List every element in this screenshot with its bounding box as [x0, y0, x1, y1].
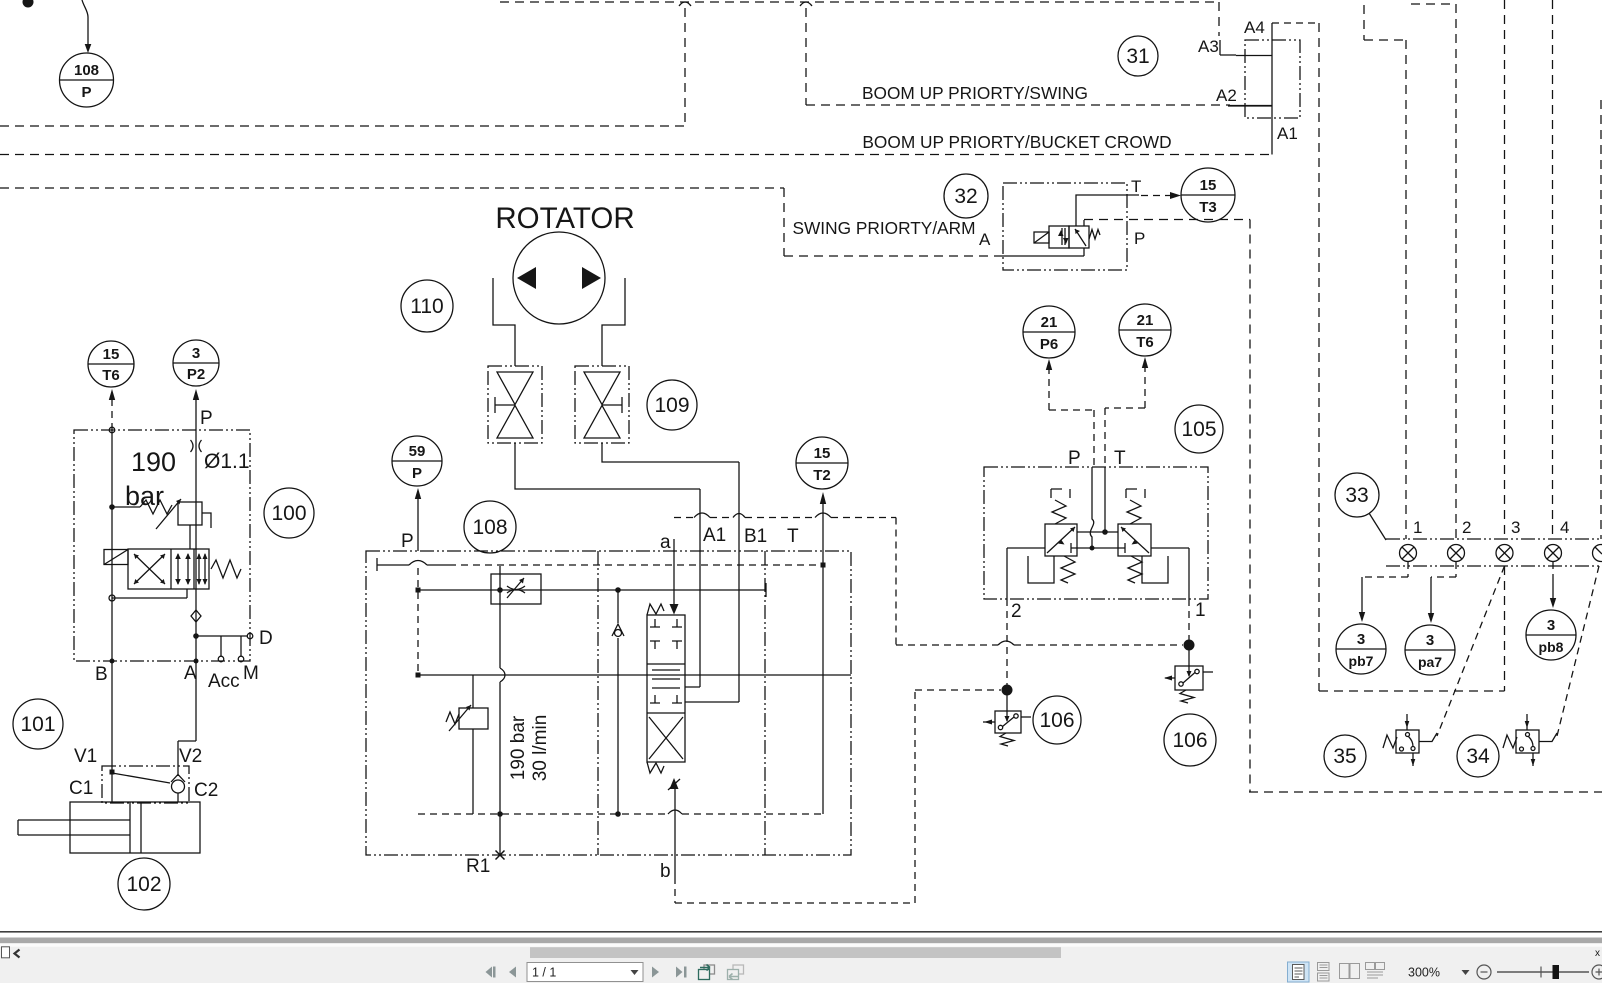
- pilot valve 34: [1503, 714, 1557, 766]
- test point 3: [1496, 545, 1513, 562]
- node: port B dot: [110, 659, 115, 664]
- wire: B to cylinder: [111, 661, 113, 802]
- UI: separator line: [0, 931, 1602, 933]
- UI: light strip: [0, 943, 1602, 946]
- svg-text:T6: T6: [1136, 334, 1154, 351]
- block 108 chain divider x598: [597, 551, 599, 855]
- gauge circle 3/P2: [173, 340, 219, 386]
- gauge circle 108/P: [60, 53, 114, 107]
- wire: dashed riser to 21/P6: [1048, 370, 1050, 410]
- wire: motor right leg: [602, 278, 625, 366]
- gauge circle 21/T6: [1119, 304, 1171, 356]
- sub-section dashed boundary top with crossing bumps: [674, 517, 896, 519]
- svg-text:T6: T6: [102, 367, 120, 384]
- svg-text:V2: V2: [179, 746, 202, 767]
- node: junction dot x196 y636: [193, 633, 199, 639]
- node: open circle x112 y598: [109, 595, 115, 601]
- directional valve V100 spring: [211, 560, 241, 578]
- wire: Acc branch: [220, 636, 222, 656]
- UI: zoom slider: [1497, 971, 1589, 973]
- svg-text:1 / 1: 1 / 1: [532, 966, 556, 980]
- svg-text:190: 190: [131, 447, 176, 477]
- UI: scrollbar thumb: [530, 947, 1061, 958]
- drain point R1 X mark: [496, 851, 505, 860]
- svg-text:106: 106: [1172, 729, 1207, 752]
- UI: zoom out button: [1477, 965, 1491, 979]
- svg-text:A1: A1: [1277, 124, 1298, 143]
- port A3 connection: [1218, 2, 1220, 36]
- svg-text:P: P: [81, 84, 91, 101]
- svg-text:pb8: pb8: [1539, 639, 1564, 655]
- wire: dashed port 1 drop: [1188, 599, 1190, 640]
- svg-text:P6: P6: [1040, 336, 1058, 353]
- svg-text:30 l/min: 30 l/min: [530, 715, 551, 782]
- node: square junction x418 y590: [416, 588, 421, 593]
- wire: boom up priorty/swing dashed line: [806, 104, 1230, 106]
- wire: D branch: [196, 635, 248, 637]
- UI: last page button: [676, 967, 687, 978]
- wire: dashed line L3 swing arm: [0, 187, 784, 189]
- test point 2: [1448, 545, 1465, 562]
- wire: tp2 to pa7: [1431, 562, 1456, 577]
- relief valve RV1: [446, 705, 488, 731]
- svg-text:A2: A2: [1216, 86, 1237, 105]
- svg-text:3: 3: [1511, 518, 1520, 537]
- valve V108 pilot b arrow: [670, 778, 679, 789]
- leader line from 33: [1369, 513, 1386, 540]
- wire: R1 drain x500: [500, 566, 505, 855]
- wire: B1 down: [685, 462, 739, 702]
- valve V108 pilot a arrow: [670, 604, 679, 615]
- svg-text:105: 105: [1181, 418, 1216, 441]
- test point manifold chain lines: [1386, 539, 1602, 566]
- node: open circle D: [247, 633, 253, 639]
- ref circle 109: [647, 380, 697, 430]
- throttle valve left symbol: [495, 372, 533, 438]
- wire: relief feed x473: [472, 675, 474, 814]
- node: junction dot x112 y507: [109, 504, 115, 510]
- wire: M branch: [240, 636, 242, 656]
- node: open circle M: [238, 656, 244, 662]
- wire: P riser to 59/P: [417, 498, 419, 551]
- gauge circle 3/pb7: [1336, 624, 1386, 674]
- ref circle 102: [118, 858, 170, 910]
- svg-text:B: B: [95, 664, 108, 685]
- UI: previous view icon: [699, 965, 715, 980]
- svg-text:3: 3: [1426, 632, 1434, 649]
- UI: next page button: [652, 967, 659, 978]
- svg-text:108: 108: [74, 62, 99, 79]
- svg-text:34: 34: [1466, 745, 1490, 768]
- valve V108 bottom spring: [647, 762, 664, 773]
- node: open circle on envelope: [109, 427, 115, 433]
- svg-text:101: 101: [20, 713, 55, 736]
- wire: P2 line inside block: [195, 430, 197, 661]
- wire: U32 T port: [1076, 195, 1139, 226]
- wire: main pressure line y675: [417, 674, 851, 676]
- svg-text:102: 102: [126, 873, 161, 896]
- svg-text:a: a: [660, 532, 671, 553]
- shuttle valve 106 right: [1164, 650, 1213, 703]
- wire: dashed box bottom: [1319, 690, 1505, 692]
- svg-text:T: T: [1114, 448, 1126, 469]
- gauge circle 59/P: [392, 436, 442, 486]
- svg-text:2: 2: [1011, 601, 1022, 622]
- wire: dashed drop x806: [805, 8, 807, 105]
- wire: swing arm drop and A-line: [784, 188, 1003, 256]
- svg-text:T: T: [787, 526, 799, 547]
- wire: top dashed bus: [500, 1, 1218, 3]
- svg-text:1: 1: [1413, 518, 1422, 537]
- wire: pilot b dashed route: [675, 690, 1001, 903]
- svg-text:300%: 300%: [1408, 966, 1440, 980]
- svg-text:V1: V1: [74, 746, 97, 767]
- motor M110 circle: [513, 232, 605, 324]
- valve U32 spring: [1089, 230, 1100, 240]
- wire: tp1 to pb7: [1362, 562, 1408, 577]
- motor M110 right triangle: [582, 267, 601, 289]
- wire: port 2 link: [1007, 548, 1045, 599]
- svg-text:21: 21: [1137, 312, 1154, 329]
- UI: toolbar background: [0, 947, 1602, 983]
- svg-text:190 bar: 190 bar: [508, 715, 529, 780]
- test point 4: [1545, 545, 1562, 562]
- ref circle 34: [1457, 735, 1499, 777]
- wire: dashed line L1: [0, 125, 685, 127]
- node: junction dot right 106: [1184, 640, 1195, 651]
- svg-text:P: P: [1068, 448, 1081, 469]
- gauge circle 15/T2: [796, 437, 848, 489]
- throttle valve left envelope: [488, 366, 542, 443]
- ref circle 31: [1118, 36, 1158, 76]
- test point 5: [1593, 545, 1602, 562]
- svg-text:106: 106: [1039, 709, 1074, 732]
- gauge circle 15/T3: [1181, 168, 1235, 222]
- pilot valve 35: [1383, 714, 1437, 766]
- cylinder 102 body: [70, 802, 200, 853]
- svg-text:P: P: [401, 531, 414, 552]
- wire: U32 P port dashed to x1250 and down: [1083, 220, 1085, 226]
- wire: pilot b solid: [674, 789, 676, 877]
- ref circle 106 left: [1033, 696, 1081, 744]
- wire: dashed right edge x1504 lower: [1504, 566, 1506, 691]
- wire: bucket crowd dashed line L2: [0, 154, 1271, 156]
- UI: next view icon: [728, 965, 744, 980]
- wire: dashed pilot line y565: [377, 558, 409, 571]
- pressure reducing valve left: [1028, 489, 1077, 583]
- wire: dashed tank line y645: [896, 644, 1183, 646]
- port A2 connection: [1228, 105, 1272, 107]
- valve block 31: solid body line: [1271, 23, 1273, 155]
- wire: feed line y590: [418, 589, 766, 591]
- svg-text:P: P: [1134, 229, 1145, 248]
- wire: tp4 to pb8: [1552, 562, 1554, 580]
- wire: dashed riser to 15/T6: [111, 399, 113, 430]
- ref circle 35: [1324, 735, 1366, 777]
- node: junction dot T: [1102, 529, 1108, 535]
- valve U32 solenoid: [1034, 232, 1049, 243]
- wire: dashed vertical x1601: [1600, 100, 1602, 539]
- wire: dashed port 2 drop: [1006, 599, 1008, 686]
- ref circle 105: [1175, 405, 1223, 453]
- wire: bottom dashed bus y792: [1249, 791, 1602, 793]
- svg-text:A: A: [979, 230, 991, 249]
- wire: right throttle to B1: [602, 443, 739, 462]
- wire: dashed bottom pilot y814: [418, 813, 823, 815]
- svg-text:M: M: [243, 663, 259, 684]
- ref circle 32: [944, 174, 988, 218]
- svg-text:P2: P2: [187, 366, 205, 383]
- valve U32 body: [1049, 226, 1089, 248]
- ref circle 108: [464, 501, 516, 553]
- block 108 chain envelope: [366, 551, 851, 855]
- UI: zoom dropdown arrow: [1462, 970, 1470, 975]
- load check chain envelope: [102, 766, 189, 803]
- svg-text:SWING PRIORTY/ARM: SWING PRIORTY/ARM: [792, 218, 975, 238]
- wire: dashed vertical x1364 with jog: [1364, 5, 1406, 539]
- valve block 31: chain envelope: [1245, 40, 1300, 118]
- gauge circle 21/P6: [1023, 306, 1075, 358]
- wire: pilot diagonal: [112, 773, 170, 783]
- node: open circle Acc: [218, 656, 224, 662]
- svg-text:x: x: [1595, 948, 1600, 959]
- wire: dashed vertical x1319: [1318, 23, 1320, 691]
- svg-text:15: 15: [103, 346, 120, 363]
- wire: left throttle to A1: [515, 443, 700, 489]
- svg-text:B1: B1: [744, 526, 767, 547]
- check valve CV2: [612, 624, 624, 637]
- wire: pilot line with end ticks: [1071, 543, 1125, 553]
- gauge circle 3/pa7: [1405, 625, 1455, 675]
- svg-text:C2: C2: [194, 780, 218, 801]
- svg-text:D: D: [259, 628, 273, 649]
- wire: valve bottom link to T6: [112, 589, 187, 598]
- ref circle 106 right: [1164, 714, 1216, 766]
- node: junction dot x500 y814: [497, 811, 503, 817]
- svg-text:T3: T3: [1199, 199, 1217, 216]
- svg-text:1: 1: [1195, 600, 1206, 621]
- wire: P line inside 105: [1090, 467, 1093, 548]
- node: port A dot: [194, 659, 199, 664]
- UI: book layout icon: [1366, 963, 1385, 979]
- check valve CV100: [191, 610, 201, 622]
- svg-text:15: 15: [1200, 177, 1217, 194]
- wire: riser to 3/P2: [195, 399, 197, 430]
- pressure reducing valve right: [1118, 489, 1168, 583]
- svg-text:C1: C1: [69, 778, 93, 799]
- UI: first page button: [486, 967, 496, 978]
- svg-text:100: 100: [271, 502, 306, 525]
- svg-text:P: P: [412, 465, 422, 482]
- wire: motor left leg: [493, 278, 515, 366]
- svg-text:ROTATOR: ROTATOR: [495, 202, 634, 235]
- wire: dashed vertical x1504: [1504, 0, 1506, 539]
- svg-text:pa7: pa7: [1418, 654, 1442, 670]
- svg-text:T2: T2: [813, 467, 831, 484]
- test point 1: [1400, 545, 1417, 562]
- valve V108 top spring: [647, 604, 664, 615]
- gauge circle 3/pb8: [1526, 610, 1576, 660]
- svg-text:T: T: [1131, 177, 1141, 196]
- node: supply dot top-left: [23, 0, 34, 8]
- ref circle 101: [13, 699, 63, 749]
- svg-text:A3: A3: [1198, 37, 1219, 56]
- node: junction dot x500 y590: [497, 587, 503, 593]
- svg-text:P: P: [200, 408, 213, 429]
- svg-text:108: 108: [472, 516, 507, 539]
- sub-section dashed boundary right: [895, 518, 897, 646]
- wire: T line inside 105: [1104, 467, 1106, 532]
- svg-text:31: 31: [1126, 45, 1149, 68]
- svg-text:32: 32: [954, 185, 977, 208]
- svg-text:4: 4: [1560, 518, 1569, 537]
- wire: dashed diagonal tp3 to valve 35: [1437, 566, 1505, 736]
- UI: scrollbar corner box: [2, 947, 10, 958]
- wire: A to check C2: [178, 661, 196, 776]
- motor M110 left triangle: [517, 267, 536, 289]
- svg-text:BOOM UP PRIORTY/SWING: BOOM UP PRIORTY/SWING: [862, 83, 1088, 103]
- directional valve V100 solenoid: [104, 550, 128, 565]
- ref circle 100: [264, 488, 314, 538]
- throttle valve right symbol: [584, 372, 622, 438]
- svg-text:21: 21: [1041, 314, 1058, 331]
- wire: dashed pilot drop x418: [417, 568, 419, 675]
- block 100 chain envelope: [74, 430, 250, 661]
- wire: dashed vertical x1552: [1552, 0, 1554, 539]
- UI: zoom in button: [1592, 965, 1602, 979]
- UI: continuous layout icon: [1318, 963, 1330, 982]
- ref circle 33: [1335, 473, 1379, 517]
- node: square junction on T riser: [821, 563, 826, 568]
- relief valve RV100: [112, 499, 211, 549]
- svg-text:b: b: [660, 861, 671, 882]
- svg-text:15: 15: [814, 445, 831, 462]
- node: square junction V1: [110, 770, 115, 775]
- cylinder 102 rod: [18, 820, 130, 835]
- svg-text:3: 3: [1547, 617, 1555, 634]
- wire: arrow to 15/T3: [1141, 195, 1171, 197]
- wire: center link between reducing valves: [1077, 531, 1118, 533]
- svg-text:33: 33: [1345, 484, 1368, 507]
- block 108 chain divider x765: [764, 551, 766, 855]
- UI: left chevron: [15, 950, 20, 958]
- node: junction dot x618 y590: [615, 587, 621, 593]
- svg-text:pb7: pb7: [1349, 653, 1374, 669]
- svg-text:35: 35: [1333, 745, 1356, 768]
- wire: port 1 link: [1151, 548, 1189, 599]
- UI: facing layout icon: [1340, 964, 1360, 979]
- svg-text:A1: A1: [703, 525, 726, 546]
- orifice 1.1mm: [191, 440, 202, 452]
- wire: T riser to 15/T2: [822, 503, 824, 814]
- svg-text:Acc: Acc: [208, 671, 240, 692]
- svg-text:3: 3: [1357, 631, 1365, 648]
- wire: dashed diagonal tp5 to valve 34: [1557, 566, 1599, 736]
- UI: page number box: [527, 963, 643, 982]
- check valve C2: [171, 775, 185, 803]
- flow control valve FC1: [491, 574, 541, 604]
- UI: single page layout selected: [1288, 962, 1310, 982]
- ref circle 110: [401, 280, 453, 332]
- node: junction dot P pilot: [1090, 546, 1095, 551]
- main spool valve V108 body: [647, 615, 685, 762]
- wire: check line x618: [617, 590, 619, 814]
- port A4 dashed bracket: [1272, 22, 1319, 24]
- wire: dashed drop x685: [684, 8, 686, 126]
- wire: A1 down: [685, 489, 700, 687]
- gauge circle 15/T6: [88, 341, 134, 387]
- svg-text:R1: R1: [466, 856, 490, 877]
- shuttle valve 106 left: [983, 694, 1031, 746]
- wire: pilot a: [673, 539, 675, 604]
- node: junction dot left 106: [1002, 685, 1013, 696]
- wire: U32 A port: [1003, 248, 1084, 256]
- svg-text:A: A: [184, 663, 197, 684]
- node: square junction x418 y675: [416, 673, 421, 678]
- block 105 chain envelope: [984, 467, 1208, 599]
- wire: dashed riser to 21/T6: [1144, 368, 1146, 408]
- svg-text:110: 110: [410, 295, 443, 318]
- node: junction dot x618 y814: [615, 811, 621, 817]
- wire: dashed vertical x1456: [1411, 4, 1456, 539]
- svg-text:BOOM UP PRIORTY/BUCKET CROWD: BOOM UP PRIORTY/BUCKET CROWD: [862, 132, 1171, 152]
- valve U32 chain envelope: [1003, 183, 1127, 270]
- svg-text:Ø1.1: Ø1.1: [204, 450, 250, 473]
- svg-text:A4: A4: [1244, 18, 1265, 37]
- UI: gray bar: [0, 938, 1602, 944]
- directional valve V100 body: [128, 549, 209, 589]
- svg-text:59: 59: [409, 443, 426, 460]
- svg-text:109: 109: [654, 394, 689, 417]
- throttle valve right envelope: [575, 366, 629, 443]
- wire: T6 line inside block: [111, 430, 113, 661]
- svg-text:2: 2: [1462, 518, 1471, 537]
- UI: prev page button: [509, 967, 516, 978]
- svg-text:3: 3: [192, 345, 200, 362]
- wire: drop to gauge 108/P: [82, 0, 88, 45]
